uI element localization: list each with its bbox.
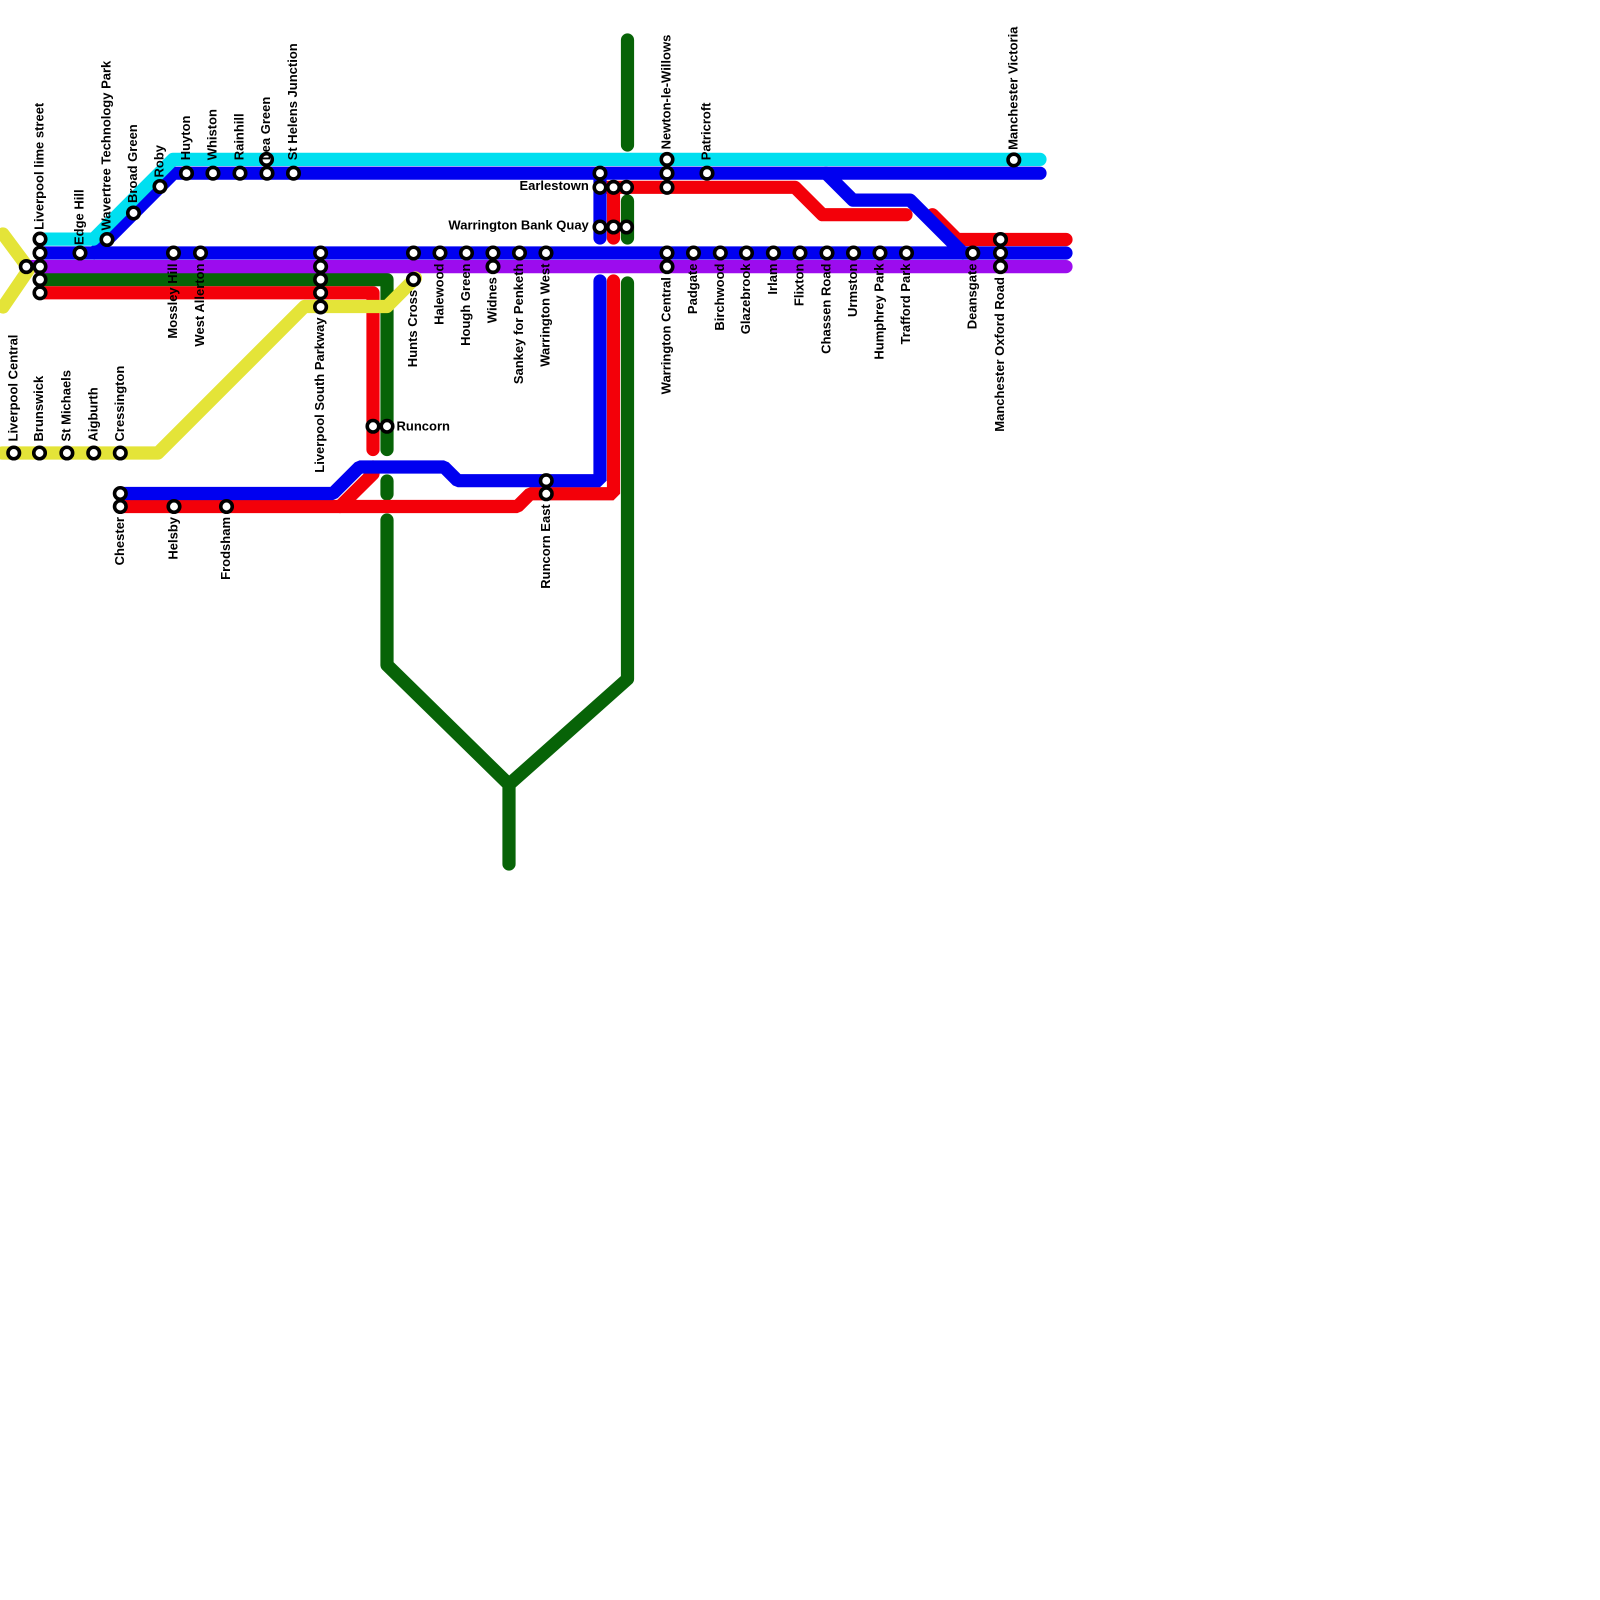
svg-text:Mossley Hill: Mossley Hill [165,264,180,339]
svg-text:Warrington West: Warrington West [538,263,553,367]
wire blue zigzag join to trunk [826,173,963,253]
svg-text:Chester: Chester [112,517,127,565]
svg-text:Widnes: Widnes [485,277,500,323]
svg-text:Liverpool lime street: Liverpool lime street [32,102,47,230]
node Deansgate [967,247,979,259]
wire blue trunk Liverpool-Manchester [40,246,1067,259]
node Glazebrook [741,247,753,259]
wire red Chester line via Runcorn East [120,281,614,507]
svg-text:Irlam: Irlam [765,264,780,295]
node Mossley Hill [168,247,180,259]
node junction node [21,261,33,273]
node Rainhill [234,167,246,179]
wire blue vertical upper at Earlestown [593,173,606,238]
wire red Manchester segment B to Oxford Road [932,215,1066,240]
wire green sliver between Chester blue and red lines [380,481,393,494]
svg-text:Cressington: Cressington [112,366,127,442]
wire green vertical top segment [621,40,634,145]
svg-text:Flixton: Flixton [792,263,807,306]
node Hunts Cross [408,247,420,285]
wire yellow chevron at left edge [3,234,29,307]
svg-text:Hough Green: Hough Green [458,263,473,345]
svg-text:Newton-le-Willows: Newton-le-Willows [659,35,674,150]
wire red vertical upper at Earlestown [607,187,620,238]
node Liverpool lime street [34,233,46,298]
svg-text:Birchwood: Birchwood [712,263,727,330]
svg-text:Runcorn: Runcorn [397,419,451,434]
svg-text:Brunswick: Brunswick [31,375,46,442]
svg-text:Manchester Oxford Road: Manchester Oxford Road [992,277,1007,432]
node Newton-le-Willows [661,154,673,193]
node Warrington Bank Quay [594,221,632,233]
node Flixton [794,247,806,259]
node Cressington [115,447,127,459]
svg-text:St Helens Junction: St Helens Junction [285,43,300,160]
node Hough Green [461,247,473,259]
svg-text:Broad Green: Broad Green [125,124,140,203]
node Birchwood [715,247,727,259]
node Manchester Oxford Road [995,234,1007,273]
svg-text:Sankey for Penketh: Sankey for Penketh [511,263,526,384]
node Edge Hill [74,247,86,259]
svg-text:Frodsham: Frodsham [218,517,233,580]
svg-text:Glazebrook: Glazebrook [738,263,753,335]
wire red trunk + Runcorn vertical [40,293,374,450]
node Halewood [434,247,446,259]
wire cyan line to Manchester Victoria [40,159,1041,239]
svg-text:Liverpool South Parkway: Liverpool South Parkway [312,317,327,473]
node Padgate [688,247,700,259]
svg-text:Patricroft: Patricroft [699,102,714,160]
node Roby [154,181,166,193]
node Whiston [207,167,219,179]
node Urmston [848,247,860,259]
node Widnes [487,247,499,272]
node Earlestown [594,167,632,193]
svg-text:Rainhill: Rainhill [232,113,247,160]
node Lea Green [261,154,273,179]
wire green trunk + Runcorn vertical [40,280,388,450]
node Brunswick [34,447,46,459]
node Chester [115,488,127,513]
svg-text:Trafford Park: Trafford Park [898,263,913,345]
node Humphrey Park [874,247,886,259]
wire yellow Liverpool Central branch [2,278,416,453]
node Liverpool South Parkway [315,247,327,312]
node Huyton [181,167,193,179]
svg-text:Warrington Central: Warrington Central [659,277,674,394]
node Warrington West [540,247,552,259]
node Warrington Central [661,247,673,272]
svg-text:Halewood: Halewood [432,263,447,324]
svg-text:Earlestown: Earlestown [519,178,588,193]
node Aigburth [88,447,100,459]
node Runcorn East [541,475,553,500]
svg-text:Edge Hill: Edge Hill [72,189,87,245]
wire red Earlestown-Manchester segment A [600,187,906,214]
svg-text:Warrington Bank Quay: Warrington Bank Quay [448,218,589,233]
node Wavertree Technology Park [101,234,113,246]
node Trafford Park [901,247,913,259]
wire purple trunk line [27,260,1066,273]
node St Michaels [61,447,73,459]
svg-text:Liverpool Central: Liverpool Central [5,335,20,442]
svg-text:St Michaels: St Michaels [59,370,74,442]
svg-text:Humphrey Park: Humphrey Park [872,263,887,360]
svg-text:Wavertree Technology Park: Wavertree Technology Park [99,60,114,231]
wire blue north line via Huyton [94,173,1040,253]
svg-text:Padgate: Padgate [685,264,700,315]
node Broad Green [128,207,140,219]
svg-text:Aigburth: Aigburth [85,387,100,441]
svg-text:Huyton: Huyton [178,115,193,160]
node St Helens Junction [288,167,300,179]
node Frodsham [221,501,233,513]
svg-text:West Allerton: West Allerton [192,263,207,346]
svg-text:Urmston: Urmston [845,263,860,317]
svg-text:Chassen Road: Chassen Road [819,263,834,353]
svg-text:Hunts Cross: Hunts Cross [405,290,420,367]
svg-text:Manchester Victoria: Manchester Victoria [1005,26,1020,150]
node Helsby [168,501,180,513]
wire green right branch down to Y junction [509,283,628,785]
node Irlam [768,247,780,259]
wire green vertical segment at Warrington Bank Quay [621,201,634,238]
node Manchester Victoria [1008,154,1020,166]
wire red Runcorn merge diagonal [340,467,373,507]
node Runcorn [367,421,393,433]
node Sankey for Penketh [514,247,526,259]
svg-text:Deansgate: Deansgate [964,264,979,330]
node Patricroft [701,167,713,179]
svg-text:Whiston: Whiston [205,109,220,160]
wire green left branch to Y junction and tail [387,520,509,864]
node West Allerton [195,247,207,259]
svg-text:Lea Green: Lea Green [258,97,273,161]
svg-text:Roby: Roby [152,144,167,177]
wire blue Chester-Runcorn East line [120,281,600,494]
node Chassen Road [821,247,833,259]
svg-text:Runcorn East: Runcorn East [538,504,553,589]
svg-text:Helsby: Helsby [166,516,181,559]
node Liverpool Central [8,447,20,459]
